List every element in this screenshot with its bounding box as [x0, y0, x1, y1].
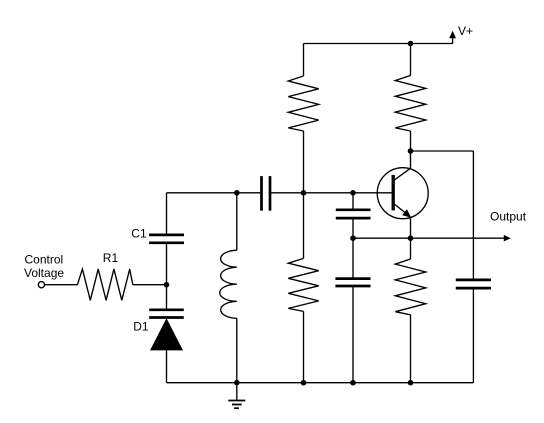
label R1 [103, 251, 119, 265]
wire collector vertical [410, 151, 412, 168]
capacitor C3 (divider upper) [336, 193, 371, 238]
wire right column upper [472, 151, 474, 280]
resistor R1 [77, 269, 132, 300]
resistor R2 (top-left) [288, 44, 318, 193]
node control junction [164, 282, 170, 288]
inductor L1 [220, 193, 237, 383]
ground [228, 383, 245, 409]
node collector junction [408, 148, 414, 154]
svg-text:Voltage: Voltage [24, 266, 64, 280]
label Output [490, 210, 527, 224]
node inductor-top junction [234, 190, 240, 196]
wire R1 to node [133, 284, 167, 286]
label V+ [458, 24, 473, 38]
label C1 [131, 227, 147, 241]
svg-text:C1: C1 [131, 227, 147, 241]
svg-text:R1: R1 [103, 251, 119, 265]
wire collector to right column [411, 150, 474, 152]
transistor Q1 [377, 168, 428, 219]
svg-text:Control: Control [25, 253, 64, 267]
svg-text:Output: Output [490, 210, 527, 224]
wire output line [353, 235, 511, 242]
node top-rail junction [408, 41, 414, 47]
node ground-rail R4 junction [301, 380, 307, 386]
label Control Voltage [24, 253, 64, 280]
terminal control voltage input [38, 282, 44, 288]
wire base line [270, 192, 392, 194]
wire right column lower [472, 288, 474, 383]
wire left column to C1 [166, 193, 168, 235]
node divider-output junction [350, 235, 356, 241]
node ground-rail L1 junction [234, 380, 240, 386]
node ground-rail R5 junction [408, 380, 414, 386]
node ground-rail C4 junction [350, 380, 356, 386]
resistor R4 (bottom-left) [288, 193, 318, 383]
node base-left junction [301, 190, 307, 196]
resistor R3 (top-right) [395, 44, 425, 152]
node emitter junction [408, 235, 414, 241]
label D1 [133, 320, 149, 334]
capacitor C2 (coupling) [262, 176, 271, 211]
wire bottom ground rail [167, 382, 474, 384]
diode D1 (varactor) [149, 285, 184, 383]
wire base line left segment [167, 192, 262, 194]
node base-divider junction [350, 190, 356, 196]
capacitor C1 [149, 235, 184, 285]
capacitor C5 (collector bypass) [456, 280, 491, 288]
capacitor C4 (divider lower) [335, 238, 370, 383]
svg-text:D1: D1 [133, 320, 149, 334]
wire top supply rail [304, 43, 453, 45]
wire input to R1 [45, 284, 78, 286]
svg-text:V+: V+ [458, 24, 473, 38]
wire emitter vertical [410, 218, 412, 238]
power V+ arrow [449, 31, 456, 44]
resistor R5 (emitter) [395, 238, 425, 383]
